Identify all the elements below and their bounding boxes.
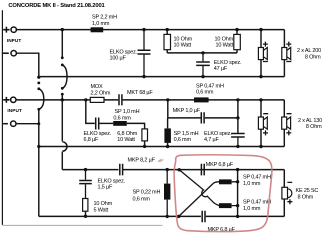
faint bottom return wire bbox=[2, 224, 162, 226]
svg-text:1,0 mm: 1,0 mm bbox=[92, 21, 110, 27]
wire resistor bottoms bbox=[167, 52, 237, 54]
label MKT 68uF bbox=[127, 90, 153, 96]
svg-text:MOX: MOX bbox=[91, 84, 103, 90]
wire return rail tweeter bbox=[39, 215, 284, 217]
wire node B vertical lower bbox=[61, 94, 63, 141]
junction dots row1 speakers bbox=[259, 28, 262, 78]
svg-text:INPUT: INPUT bbox=[7, 108, 22, 113]
speaker AL200 #2 bbox=[282, 30, 291, 77]
node B hop over return rail bbox=[62, 142, 67, 151]
junction dots ELKO100 bbox=[142, 28, 145, 78]
svg-text:10 Watt: 10 Watt bbox=[174, 43, 192, 49]
capacitor ELKO spez. 6,8uF bbox=[96, 118, 99, 130]
input terminal - (row1) bbox=[3, 51, 16, 56]
junction dots row2 speakers bbox=[259, 98, 262, 148]
speaker AL130 #1 bbox=[258, 100, 267, 147]
svg-text:1,0 mm: 1,0 mm bbox=[243, 206, 261, 212]
label SP 1,0 mH bbox=[113, 109, 139, 121]
svg-text:0,6 mm: 0,6 mm bbox=[174, 137, 192, 143]
resistor 6,8 Ohm 10 Watt bbox=[142, 129, 148, 147]
label SP 0,47 mH bridge top bbox=[243, 175, 271, 188]
wire bridge right vertical bbox=[237, 170, 239, 217]
svg-text:SP 0,47 mH: SP 0,47 mH bbox=[196, 83, 224, 89]
label SP 0,22 mH bbox=[133, 189, 161, 202]
left bus vertical wire bbox=[1, 10, 3, 225]
label 6,8 Ohm 10 Watt bbox=[117, 131, 137, 143]
svg-text:2,2 Ohm: 2,2 Ohm bbox=[91, 90, 111, 96]
label 10 Ohm 10 Watt (right) bbox=[215, 36, 234, 48]
svg-text:10 Ohm: 10 Ohm bbox=[215, 36, 234, 42]
capacitor ELKO spez. 1,5uF bbox=[79, 170, 92, 199]
node A jumper arc over row2 wire bbox=[39, 89, 44, 110]
svg-text:10 Watt: 10 Watt bbox=[216, 43, 234, 49]
junction dot A/input- bbox=[37, 122, 40, 125]
node B jumper dots bbox=[61, 28, 64, 96]
junction dot SP 0,22 bottom bbox=[166, 215, 169, 218]
tweeter KE 25 SC bbox=[282, 170, 292, 217]
svg-text:MKP 8,2 µF: MKP 8,2 µF bbox=[128, 157, 156, 163]
label MKP 1,0 uF bbox=[173, 108, 201, 114]
inductor SP 1,0 mH bbox=[113, 121, 127, 126]
junction dots row2 MKP branch bbox=[166, 98, 239, 101]
diagonal D1 with hop bbox=[179, 170, 219, 206]
svg-text:0,6 mm: 0,6 mm bbox=[113, 116, 131, 122]
inductor SP 2,2 mH bbox=[91, 27, 104, 32]
speaker AL200 #1 bbox=[258, 30, 267, 77]
capacitor ELKO spez. 47uF bbox=[196, 53, 210, 77]
svg-text:47 µF: 47 µF bbox=[214, 66, 228, 72]
svg-text:ELKO spez.: ELKO spez. bbox=[110, 50, 138, 56]
svg-text:ELKO spez.: ELKO spez. bbox=[214, 60, 242, 66]
inductor SP 0,22 mH bbox=[166, 170, 168, 217]
svg-text:SP 1,5 mH: SP 1,5 mH bbox=[174, 131, 199, 137]
node A jumper dots bbox=[37, 76, 40, 111]
svg-text:MKT 68 µF: MKT 68 µF bbox=[127, 90, 153, 96]
junction dot ELKO 1,5 branch bbox=[84, 168, 87, 171]
svg-text:MKP 6,8 µF: MKP 6,8 µF bbox=[206, 162, 234, 168]
wire branch down to LC row bbox=[86, 100, 95, 124]
polarity marks AL200 #1 bbox=[263, 42, 268, 62]
label MOX 2,2 Ohm bbox=[91, 84, 111, 96]
svg-text:8 Ohm: 8 Ohm bbox=[298, 195, 314, 201]
capacitor ELKO spez. 4,7uF bbox=[231, 134, 245, 147]
svg-text:KE 25 SC: KE 25 SC bbox=[296, 188, 319, 194]
red tick mark bbox=[158, 159, 164, 162]
svg-text:SP 0,47 mH: SP 0,47 mH bbox=[243, 175, 271, 181]
label ELKO spez. 1,5uF bbox=[98, 178, 126, 190]
capacitor MKT 68uF bbox=[119, 94, 122, 105]
svg-text:INPUT: INPUT bbox=[7, 38, 22, 43]
svg-text:2 x AL 130: 2 x AL 130 bbox=[298, 118, 322, 124]
label MKP 6,8 uF top bbox=[206, 162, 234, 168]
polarity marks AL130 #1 bbox=[263, 114, 268, 136]
svg-text:8 Ohm: 8 Ohm bbox=[306, 124, 322, 130]
wire input- row2 joins node A bbox=[16, 123, 39, 125]
capacitor ELKO spez. 100uF bbox=[138, 30, 151, 77]
svg-text:5 Watt: 5 Watt bbox=[94, 207, 109, 213]
svg-text:10 Ohm: 10 Ohm bbox=[94, 201, 113, 207]
label 10 Ohm 10 Watt (left) bbox=[174, 36, 193, 48]
junction dot MKP branch right bbox=[236, 116, 239, 119]
capacitor MKP 1,0 uF bbox=[201, 112, 204, 123]
junction dot row2 branch bbox=[61, 98, 88, 101]
label KE 25 SC bbox=[296, 188, 319, 201]
label SP 0,47 mH row2 bbox=[196, 83, 224, 95]
wire row1 top rail bbox=[16, 29, 284, 31]
junction dot 10 Ohm bottom bbox=[84, 215, 87, 218]
svg-text:SP 1,0 mH: SP 1,0 mH bbox=[115, 109, 140, 115]
label SP 1,5 mH / ELKO spez 4,7uF bbox=[174, 131, 233, 143]
wire tweeter rail bbox=[62, 169, 284, 171]
svg-text:ELKO spez.: ELKO spez. bbox=[204, 131, 232, 137]
label ELKO spez. 47uF bbox=[214, 60, 242, 72]
junction dot 6,8 Ohm bottom bbox=[143, 145, 146, 148]
junction dots resistors top bbox=[166, 28, 239, 55]
junction dot SP 0,22 top bbox=[166, 168, 169, 171]
junction dot ELKO47 bottom bbox=[201, 75, 204, 78]
inductor SP 0,47 mH row2 bbox=[194, 97, 209, 102]
inductor SP 0,47 mH bridge bottom bbox=[219, 203, 232, 208]
svg-text:100 µF: 100 µF bbox=[110, 56, 127, 62]
input terminal - (row2) bbox=[3, 121, 16, 126]
resistor R 10 Ohm 10 Watt (left) bbox=[164, 30, 171, 53]
node B jumper arc over mid rail bbox=[62, 65, 67, 88]
svg-text:CONCORDE MK II - Stand 21.08.2: CONCORDE MK II - Stand 21.08.2001 bbox=[8, 3, 105, 9]
svg-text:SP 0,47 mH: SP 0,47 mH bbox=[243, 200, 271, 206]
svg-text:ELKO spez.: ELKO spez. bbox=[98, 178, 126, 184]
resistor R 10 Ohm 10 Watt (right) bbox=[234, 30, 241, 53]
resistor MOX 2,2 Ohm bbox=[90, 97, 104, 102]
inductor SP 0,47 mH bridge top bbox=[219, 179, 232, 184]
wire node B vertical upper bbox=[61, 30, 63, 58]
label MKP 6,8 uF bottom bbox=[208, 227, 236, 233]
label 2 x AL 200 bbox=[297, 48, 321, 60]
svg-text:SP 2,2 mH: SP 2,2 mH bbox=[92, 15, 117, 21]
wire inductor outputs to junction vertical bbox=[232, 182, 238, 206]
junction dot bridge top-left bbox=[178, 168, 181, 171]
svg-text:ELKO spez.: ELKO spez. bbox=[84, 131, 112, 137]
label ELKO spez. 6,8uF bbox=[84, 131, 112, 143]
capacitor MKP 6,8 uF bottom bbox=[202, 211, 205, 223]
label SP 0,47 mH bridge bottom bbox=[243, 200, 271, 213]
svg-text:1,5 µF: 1,5 µF bbox=[98, 185, 113, 191]
wire input- row1 to node A bbox=[16, 53, 39, 77]
wire MKP 1,0 branch bbox=[168, 100, 238, 133]
svg-text:2 x AL 200: 2 x AL 200 bbox=[297, 48, 321, 54]
wire mid rail (speaker return row1) bbox=[39, 76, 285, 78]
wire row2 rail bbox=[16, 99, 284, 101]
svg-text:0,6 mm: 0,6 mm bbox=[196, 90, 214, 96]
svg-text:SP 0,22 mH: SP 0,22 mH bbox=[133, 189, 161, 195]
label MKP 8,2 uF bbox=[128, 157, 156, 163]
wire node A down to return row bbox=[38, 109, 40, 216]
capacitor MKP 8,2 uF bbox=[120, 164, 123, 176]
label INPUT (row2) bbox=[7, 108, 22, 113]
wire return rail row2 bbox=[39, 146, 284, 148]
label INPUT (row1) bbox=[7, 38, 22, 43]
polarity marks AL130 #2 bbox=[286, 114, 291, 136]
junction dots bridge right bbox=[236, 168, 239, 218]
title bbox=[8, 3, 105, 9]
speaker AL130 #2 bbox=[282, 100, 291, 147]
svg-text:10 Watt: 10 Watt bbox=[117, 137, 135, 143]
junction dot return/node A bbox=[37, 145, 40, 148]
label 10 Ohm 5 Watt bbox=[94, 201, 113, 213]
label 2 x AL 130 bbox=[298, 118, 322, 130]
capacitor MKP 6,8 uF top bbox=[201, 164, 204, 176]
svg-text:4,7 µF: 4,7 µF bbox=[204, 137, 219, 143]
input terminal + (row2) bbox=[3, 97, 16, 103]
svg-text:10 Ohm: 10 Ohm bbox=[174, 36, 193, 42]
svg-text:1,0 mm: 1,0 mm bbox=[243, 181, 261, 187]
wire node B to tweeter rail bbox=[61, 152, 63, 170]
diagonal D2 bbox=[179, 182, 219, 217]
input terminal + (row1) bbox=[3, 27, 16, 33]
label SP 2,2 mH bbox=[92, 15, 117, 27]
junction dot bridge bottom-left bbox=[177, 215, 180, 218]
wire inductor to resistor 6,8 Ohm bbox=[127, 123, 145, 128]
polarity marks AL200 #2 bbox=[286, 42, 291, 62]
svg-text:6,8 µF: 6,8 µF bbox=[84, 137, 99, 143]
polarity marks KE 25 SC bbox=[287, 182, 292, 204]
svg-text:6,8 Ohm: 6,8 Ohm bbox=[117, 131, 137, 137]
wire SP 1,5 stubs bbox=[167, 118, 169, 147]
svg-text:8 Ohm: 8 Ohm bbox=[305, 55, 321, 61]
red hand-drawn loop bbox=[174, 155, 272, 232]
junction dots SP1,5 / ELKO4,7 bottom bbox=[166, 145, 240, 149]
wire cap to inductor bbox=[100, 122, 114, 124]
resistor 10 Ohm 5 Watt bbox=[83, 199, 88, 217]
label ELKO spez. 100uF bbox=[110, 50, 138, 62]
svg-text:MKP 1,0 µF: MKP 1,0 µF bbox=[173, 108, 201, 114]
inductor SP 1,5 mH bbox=[164, 128, 171, 143]
svg-text:0,6 mm: 0,6 mm bbox=[133, 197, 151, 203]
